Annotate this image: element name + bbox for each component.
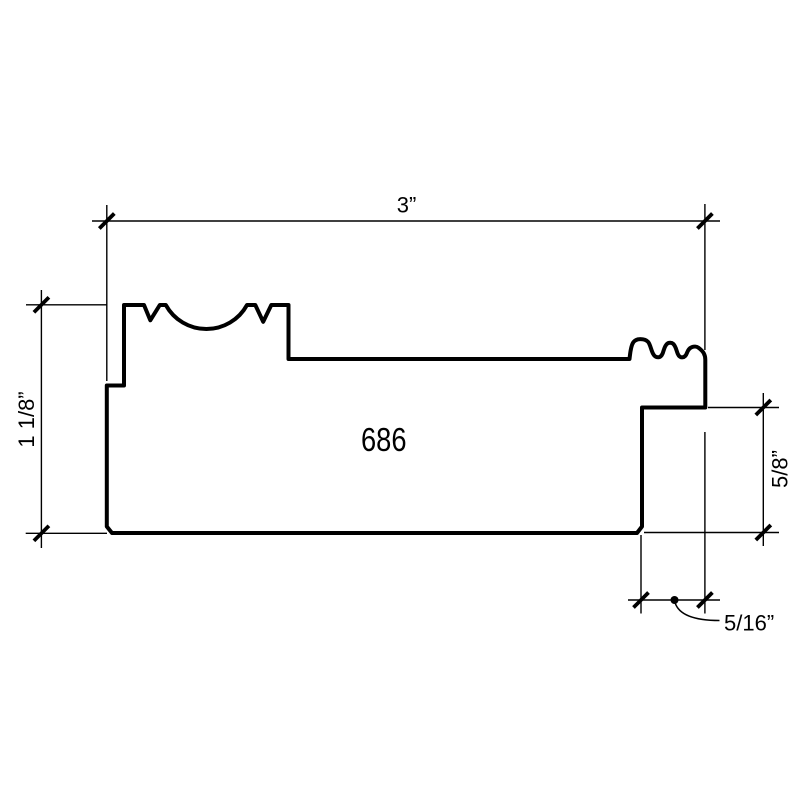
- tick right of 5/16-inch dimension: [697, 593, 712, 608]
- leader dot on 5/16-inch dimension: [671, 596, 679, 604]
- extension line left of 3-inch dimension (x=106.8): [106, 205, 108, 381]
- svg-text:686: 686: [361, 422, 407, 459]
- tick bottom of 1-1/8-inch dimension: [34, 526, 49, 541]
- moulding profile outline 686: [107, 305, 706, 533]
- tick top of 1-1/8-inch dimension: [34, 297, 49, 312]
- dimension line 5/8-inch: [762, 393, 764, 546]
- svg-text:5/8”: 5/8”: [768, 450, 793, 488]
- extension line right of 3-inch dimension (x=704.9): [704, 204, 706, 350]
- tick bottom of 5/8-inch dimension: [756, 525, 771, 540]
- dimension line 5/16-inch: [628, 599, 720, 601]
- extension line right of 5/16-inch dimension (x=704.9): [704, 432, 706, 614]
- dimension line 1-1/8-inch: [40, 290, 42, 548]
- extension line bottom of 1-1/8-inch dimension (y=533.3): [26, 532, 107, 534]
- svg-text:1 1/8”: 1 1/8”: [14, 391, 39, 447]
- tick left of 3-inch dimension: [99, 214, 114, 229]
- leader curve to 5/16-inch label: [675, 603, 720, 621]
- extension line top of 1-1/8-inch dimension (y=304.8): [26, 304, 108, 306]
- dimension line 3-inch: [92, 220, 720, 222]
- extension line top of 5/8-inch dimension (y=407.5): [708, 407, 779, 409]
- tick left of 5/16-inch dimension: [634, 593, 649, 608]
- extension line bottom of 5/8-inch dimension (y=532.5): [644, 532, 779, 534]
- svg-text:3”: 3”: [397, 193, 417, 218]
- extension line left of 5/16-inch dimension (x=641): [640, 535, 642, 614]
- svg-text:5/16”: 5/16”: [724, 611, 774, 636]
- tick top of 5/8-inch dimension: [756, 400, 771, 415]
- tick right of 3-inch dimension: [697, 214, 712, 229]
